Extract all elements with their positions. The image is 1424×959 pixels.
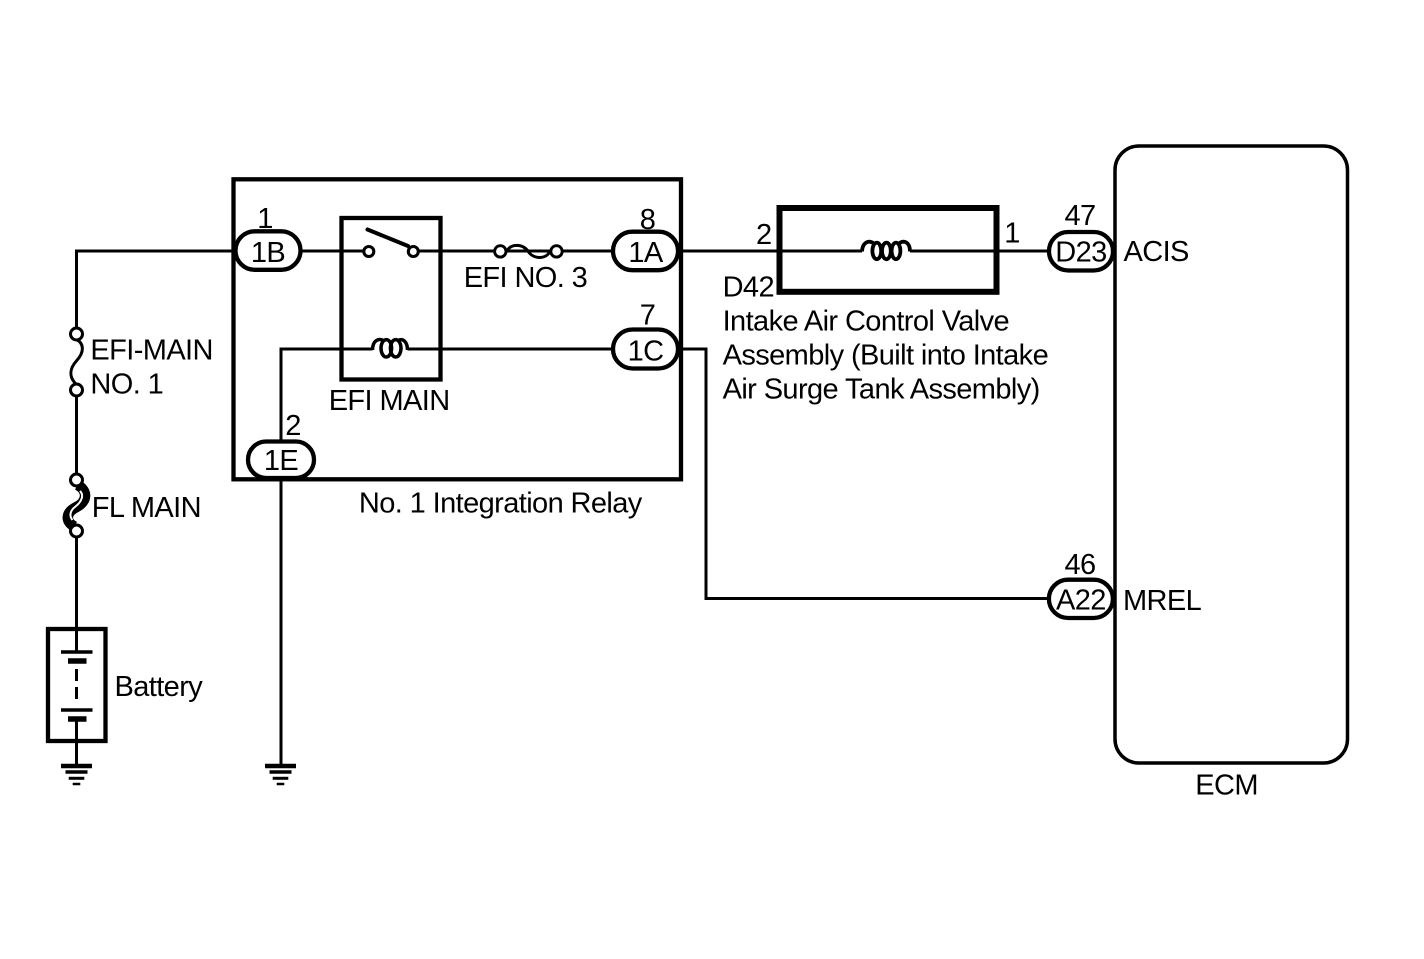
- svg-text:D23: D23: [1055, 237, 1106, 269]
- svg-text:No. 1 Integration Relay: No. 1 Integration Relay: [359, 488, 643, 520]
- wire: main horizontal battery feed to switch: [77, 250, 369, 253]
- fuse EFI NO. 3: [495, 245, 563, 257]
- relay inner box EFI MAIN: [342, 218, 441, 380]
- wire: relay coil left to 1E branch: [281, 348, 373, 351]
- svg-text:EFI NO. 3: EFI NO. 3: [464, 262, 588, 294]
- svg-text:47: 47: [1064, 200, 1095, 232]
- svg-text:D42: D42: [723, 272, 774, 304]
- connector 1E: [248, 442, 314, 479]
- svg-text:EFI-MAIN: EFI-MAIN: [90, 334, 212, 366]
- ground (1E): [265, 766, 296, 784]
- svg-text:Battery: Battery: [115, 671, 204, 703]
- svg-text:1B: 1B: [251, 237, 285, 269]
- svg-text:EFI MAIN: EFI MAIN: [329, 385, 450, 417]
- svg-text:1: 1: [257, 203, 273, 235]
- svg-text:46: 46: [1064, 549, 1095, 581]
- wire: D42 coil right to D23: [910, 250, 1049, 253]
- connector A22: [1049, 580, 1113, 618]
- svg-text:1C: 1C: [628, 336, 664, 368]
- D42 intake air control valve box: [780, 208, 997, 292]
- svg-text:Air Surge Tank Assembly): Air Surge Tank Assembly): [723, 373, 1040, 405]
- svg-text:ACIS: ACIS: [1124, 236, 1190, 268]
- wire: relay coil right to 1C: [408, 348, 707, 351]
- svg-text:1E: 1E: [264, 445, 299, 477]
- wire: fuse to fusible link: [75, 390, 78, 480]
- label D42 Intake Air Control Valve Assembly: [723, 272, 1049, 406]
- svg-text:A22: A22: [1056, 584, 1106, 616]
- svg-text:7: 7: [640, 300, 656, 332]
- wire: horizontal to A22: [705, 597, 1050, 600]
- ECM box: [1115, 146, 1348, 763]
- connector 1A: [613, 232, 678, 271]
- relay outer box: No. 1 Integration Relay: [234, 179, 682, 479]
- svg-text:1A: 1A: [628, 237, 664, 269]
- ground (battery): [61, 766, 92, 784]
- svg-text:MREL: MREL: [1123, 585, 1202, 617]
- wire: left vertical battery feed (top to fuse): [75, 250, 78, 335]
- svg-text:NO. 1: NO. 1: [90, 368, 163, 400]
- relay switch contacts: [364, 230, 419, 257]
- svg-text:8: 8: [640, 204, 656, 236]
- svg-text:FL MAIN: FL MAIN: [92, 492, 201, 524]
- battery: [48, 629, 106, 741]
- connector 1C: [613, 330, 678, 369]
- connector 1B: [236, 231, 301, 269]
- wire: battery to ground: [75, 719, 78, 766]
- svg-text:ECM: ECM: [1195, 770, 1258, 802]
- wire: 1E vertical to ground: [280, 348, 283, 767]
- svg-text:2: 2: [285, 410, 301, 442]
- svg-text:Assembly (Built into Intake: Assembly (Built into Intake: [723, 339, 1049, 371]
- wire: 1C drop vertical: [705, 348, 708, 599]
- D42 coil (valve solenoid): [862, 242, 910, 259]
- wire: switch output through 1A, EFI NO.3 fuse, D42 to D23: [413, 250, 862, 253]
- connector D23: [1049, 232, 1113, 271]
- svg-text:Intake Air Control Valve: Intake Air Control Valve: [723, 306, 1010, 338]
- fusible link FL MAIN: [68, 474, 85, 537]
- svg-text:1: 1: [1004, 218, 1020, 250]
- fuse EFI-MAIN NO.1: [71, 328, 83, 396]
- svg-text:2: 2: [756, 219, 772, 251]
- wire: fusible link to battery: [75, 531, 78, 652]
- relay coil EFI MAIN: [373, 340, 408, 357]
